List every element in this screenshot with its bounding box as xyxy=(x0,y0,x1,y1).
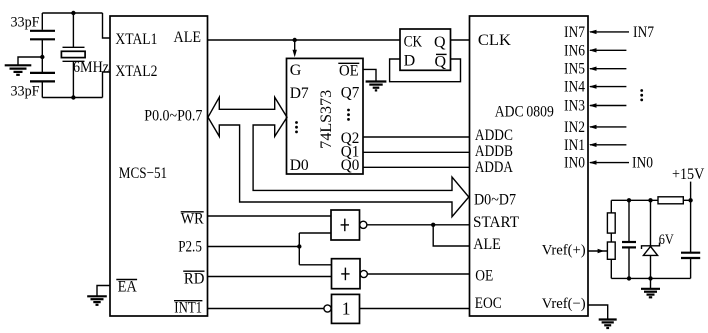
ground OE of 74LS373 xyxy=(366,82,387,91)
wire ALE drop with arrow into G xyxy=(293,40,297,57)
svg-text:Vref(+): Vref(+) xyxy=(542,242,586,258)
svg-text:IN3: IN3 xyxy=(564,98,585,115)
wire Q output to ADC CLK xyxy=(451,39,470,41)
node crystal midpoint junction xyxy=(40,55,44,59)
svg-text:INT1: INT1 xyxy=(174,299,202,316)
wire XTAL1 connection xyxy=(103,13,111,38)
svg-text:IN0: IN0 xyxy=(564,155,585,172)
node START/ALE junction xyxy=(431,223,435,227)
potentiometer RP1 xyxy=(607,242,615,278)
svg-text:IN6: IN6 xyxy=(564,42,585,59)
latch 74LS373 U2 box xyxy=(287,58,364,174)
capacitor C4 xyxy=(681,200,700,278)
svg-text:IN1: IN1 xyxy=(564,137,585,154)
wire analog input IN5 xyxy=(589,67,626,71)
svg-text:EA: EA xyxy=(118,279,138,296)
svg-text:D: D xyxy=(404,53,416,70)
svg-text:Q: Q xyxy=(434,53,446,70)
wire Q0 to ADDA xyxy=(363,166,470,168)
svg-text:XTAL2: XTAL2 xyxy=(115,63,157,80)
node crystal bottom junction xyxy=(71,95,75,99)
capacitor C2 33pF xyxy=(30,73,55,98)
wire WR to gate1 input xyxy=(208,215,332,217)
wire bottom rail of crystal network xyxy=(42,97,102,99)
wire RD to gate2 lower input xyxy=(208,276,332,278)
wire OE to ground xyxy=(363,69,376,81)
ADC0809 U6 box xyxy=(470,16,589,316)
analog inputs ellipsis dots xyxy=(640,89,643,101)
ground EA xyxy=(87,286,110,305)
gate U4A nand "+" xyxy=(331,210,367,240)
zener diode VD1 6V xyxy=(642,200,660,278)
svg-text:ALE: ALE xyxy=(473,236,501,253)
wire P2.5 to junction xyxy=(208,246,300,248)
74LS373 right ellipsis dots xyxy=(347,109,350,121)
node rail junction at C3 xyxy=(627,198,631,202)
svg-text:IN7: IN7 xyxy=(564,24,585,41)
wire top rail of crystal network xyxy=(42,12,102,14)
svg-text:D7: D7 xyxy=(290,85,309,102)
svg-text:ALE: ALE xyxy=(174,29,202,46)
pin OE label of 74LS373 xyxy=(338,63,359,80)
svg-text:D0~D7: D0~D7 xyxy=(474,192,516,209)
node bottom rail junction at zener xyxy=(648,276,652,280)
svg-text:OE: OE xyxy=(339,63,359,80)
pin RD label xyxy=(183,271,204,288)
svg-text:CLK: CLK xyxy=(478,32,511,49)
wire analog input IN1 xyxy=(589,143,626,147)
wire +15V down to rail xyxy=(690,182,692,201)
ground reference network xyxy=(641,278,660,297)
wire analog input IN7 xyxy=(589,30,629,34)
svg-text:Vref(−): Vref(−) xyxy=(542,296,586,312)
wire Vref(-) to ground xyxy=(588,305,608,319)
wire junction vertical xyxy=(298,233,300,265)
wire to gate1 lower input xyxy=(299,232,331,234)
svg-text:RD: RD xyxy=(184,271,205,288)
svg-text:WR: WR xyxy=(181,211,204,228)
svg-text:P2.5: P2.5 xyxy=(178,239,202,256)
wire analog input IN2 xyxy=(589,125,626,129)
capacitor C1 33pF xyxy=(30,13,55,72)
svg-text:6V: 6V xyxy=(659,232,674,248)
svg-text:CK: CK xyxy=(404,34,423,51)
svg-text:1: 1 xyxy=(342,299,351,319)
wire ALE line MCS-51 to flip-flop CK xyxy=(208,39,401,41)
wire Q1 to ADDB xyxy=(363,151,470,153)
node rail junction at zener xyxy=(648,198,652,202)
wire to gate2 upper input xyxy=(299,264,331,266)
svg-text:Q7: Q7 xyxy=(341,85,360,102)
wire analog input IN6 xyxy=(589,48,626,52)
pin WR label xyxy=(181,211,204,228)
flip-flop U3 D-type box xyxy=(400,29,451,70)
crystal Y1 6MHz xyxy=(61,13,85,98)
svg-text:33pF: 33pF xyxy=(11,84,40,100)
pin Qbar label of flip-flop xyxy=(434,53,446,70)
resistor R1 horizontal xyxy=(658,197,683,204)
pin EA label xyxy=(116,279,137,296)
svg-text:ADDA: ADDA xyxy=(475,159,513,176)
svg-text:IN7: IN7 xyxy=(633,24,654,41)
node P2.5 junction xyxy=(297,244,301,248)
svg-text:33pF: 33pF xyxy=(11,15,40,31)
ground Vref(-) xyxy=(599,320,617,329)
svg-text:START: START xyxy=(473,214,519,231)
svg-text:D0: D0 xyxy=(290,157,309,174)
wire XTAL2 connection xyxy=(103,72,111,98)
svg-text:XTAL1: XTAL1 xyxy=(115,31,157,48)
svg-text:IN4: IN4 xyxy=(564,79,585,96)
node bottom rail junction at C3 xyxy=(627,276,631,280)
wire gate2 output to OE xyxy=(367,273,469,275)
svg-text:Q: Q xyxy=(434,34,446,51)
svg-text:G: G xyxy=(290,62,302,79)
node rail junction at +15V xyxy=(688,198,692,202)
svg-text:ADDB: ADDB xyxy=(475,143,513,160)
capacitor C3 xyxy=(622,200,636,278)
wire rail right of R1 xyxy=(683,199,690,201)
node ALE junction xyxy=(293,38,297,42)
svg-text:OE: OE xyxy=(475,267,493,284)
gate U4B nand "+" xyxy=(332,259,368,289)
wire analog input IN3 xyxy=(589,103,626,107)
wire Q2 to ADDC xyxy=(363,136,470,138)
svg-text:EOC: EOC xyxy=(475,295,502,312)
gate U5 inverter "1" xyxy=(324,294,360,323)
74LS373 left ellipsis dots xyxy=(295,121,298,133)
MCS-51 U1 box xyxy=(110,16,208,316)
node crystal top junction xyxy=(71,11,75,15)
wire analog input IN0 xyxy=(589,160,629,164)
wire EOC to gate3 xyxy=(360,308,470,310)
resistor R2 vertical xyxy=(607,200,615,242)
svg-text:IN5: IN5 xyxy=(564,61,585,78)
wire gate1 output to START xyxy=(367,224,470,226)
wire junction to ALE pin xyxy=(433,225,469,246)
svg-text:74LS373: 74LS373 xyxy=(318,90,335,149)
wire top rail of reference network xyxy=(611,199,658,201)
svg-text:MCS−51: MCS−51 xyxy=(119,165,167,182)
svg-text:IN2: IN2 xyxy=(564,119,585,136)
wire bottom rail of reference network xyxy=(611,277,690,279)
wire analog input IN4 xyxy=(589,84,626,88)
svg-text:+15V: +15V xyxy=(672,166,705,183)
svg-text:ADDC: ADDC xyxy=(475,127,513,144)
svg-text:Q0: Q0 xyxy=(341,157,360,174)
ground crystal network xyxy=(5,57,43,75)
svg-text:IN0: IN0 xyxy=(632,155,653,172)
wire INT1 to gate3 bubble xyxy=(208,308,324,310)
pin INT1 label xyxy=(174,299,202,316)
bus P0.0~P0.7 double arrow with branch to D0~D7 xyxy=(208,97,469,217)
wire Vref(+) with wiper arrow xyxy=(588,249,608,253)
wire Qbar feedback to D xyxy=(390,59,461,82)
svg-text:ADC 0809: ADC 0809 xyxy=(495,103,554,120)
svg-text:P0.0~P0.7: P0.0~P0.7 xyxy=(144,108,202,125)
